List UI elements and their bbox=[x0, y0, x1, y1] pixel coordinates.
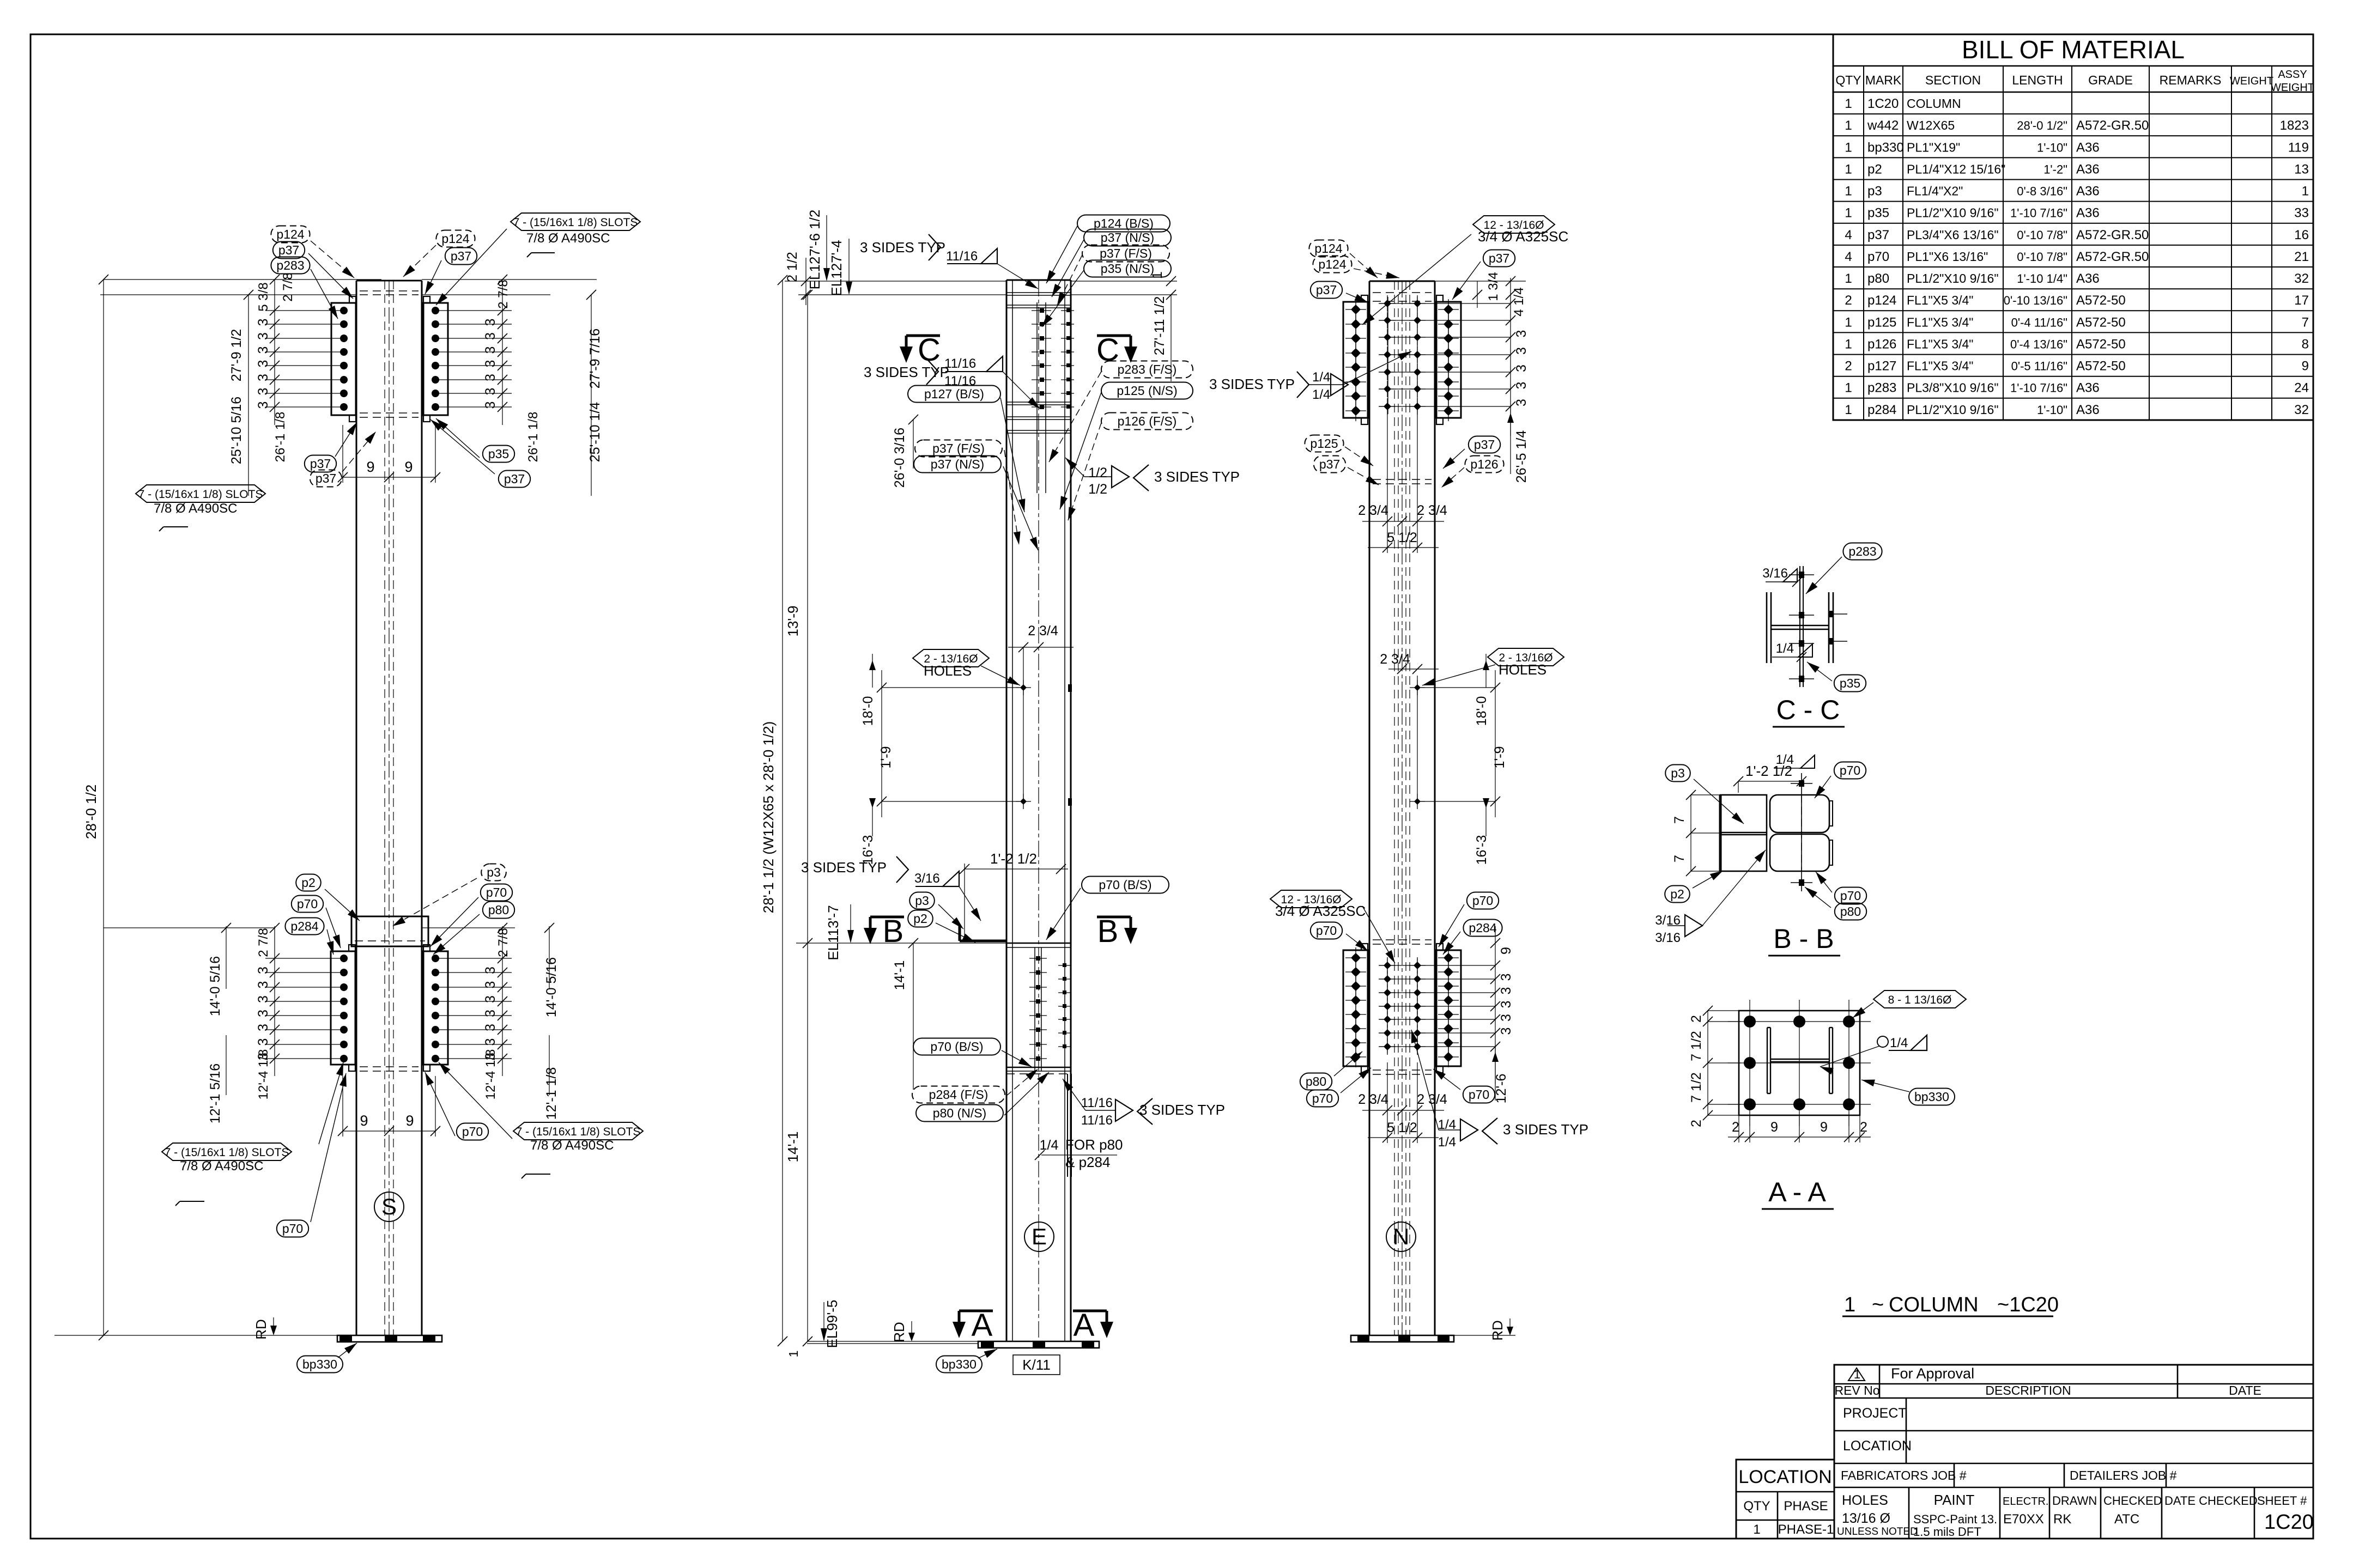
svg-text:3/16: 3/16 bbox=[1655, 931, 1681, 945]
svg-text:11/16: 11/16 bbox=[1081, 1113, 1113, 1128]
svg-text:3: 3 bbox=[1514, 330, 1529, 338]
svg-text:3/4 Ø A325SC: 3/4 Ø A325SC bbox=[1275, 903, 1366, 919]
svg-text:3: 3 bbox=[1499, 974, 1514, 981]
svg-text:A36: A36 bbox=[2076, 271, 2100, 286]
svg-text:QTY: QTY bbox=[1835, 73, 1861, 87]
svg-text:p283: p283 bbox=[1867, 381, 1896, 396]
svg-text:p37: p37 bbox=[1319, 457, 1340, 471]
svg-text:4: 4 bbox=[1845, 228, 1852, 242]
svg-text:p80: p80 bbox=[488, 903, 509, 917]
E section C markers bbox=[906, 335, 940, 337]
svg-text:9: 9 bbox=[1820, 1120, 1828, 1135]
S overall dim 28ft bbox=[103, 279, 104, 1335]
svg-text:12'-6: 12'-6 bbox=[1494, 1074, 1509, 1104]
svg-text:1: 1 bbox=[1845, 118, 1852, 133]
svg-text:p37: p37 bbox=[278, 243, 299, 257]
svg-text:For Approval: For Approval bbox=[1891, 1365, 1974, 1382]
svg-text:0'-4 13/16": 0'-4 13/16" bbox=[2010, 337, 2067, 351]
svg-text:p80: p80 bbox=[1840, 904, 1861, 919]
svg-text:A36: A36 bbox=[2076, 162, 2100, 177]
svg-text:p126: p126 bbox=[1867, 337, 1896, 351]
E top labels bbox=[1077, 215, 1170, 232]
svg-text:2 1/2: 2 1/2 bbox=[785, 252, 800, 282]
svg-text:7/8 Ø A490SC: 7/8 Ø A490SC bbox=[154, 501, 237, 516]
svg-text:p2: p2 bbox=[913, 911, 927, 926]
svg-text:1: 1 bbox=[1845, 162, 1852, 177]
E web holes 2-13/16 bbox=[1023, 647, 1024, 801]
svg-text:1'-10": 1'-10" bbox=[2037, 141, 2067, 154]
svg-text:SSPC-Paint 13.: SSPC-Paint 13. bbox=[1913, 1512, 1997, 1526]
svg-text:12'-1 5/16: 12'-1 5/16 bbox=[208, 1063, 223, 1123]
svg-text:p37: p37 bbox=[1867, 228, 1889, 242]
svg-text:1/4: 1/4 bbox=[1312, 370, 1330, 385]
svg-text:p125 (N/S): p125 (N/S) bbox=[1117, 384, 1177, 398]
svg-text:p126: p126 bbox=[1470, 457, 1498, 471]
svg-text:1: 1 bbox=[2302, 184, 2309, 199]
svg-text:5 1/2: 5 1/2 bbox=[1387, 1120, 1417, 1135]
svg-text:p70: p70 bbox=[1312, 1091, 1333, 1105]
svg-text:A36: A36 bbox=[2076, 381, 2100, 396]
svg-text:1.5 mils DFT: 1.5 mils DFT bbox=[1913, 1525, 1981, 1539]
E bottom splice plates bbox=[1006, 943, 1071, 944]
svg-text:2 3/4: 2 3/4 bbox=[1380, 652, 1410, 667]
svg-text:2 3/4: 2 3/4 bbox=[1417, 503, 1447, 518]
svg-text:8: 8 bbox=[2302, 337, 2309, 351]
K/11 label bbox=[1013, 1355, 1060, 1375]
svg-text:1/2: 1/2 bbox=[1088, 482, 1107, 497]
svg-text:CHECKED: CHECKED bbox=[2103, 1494, 2162, 1508]
svg-text:3: 3 bbox=[256, 1010, 271, 1017]
svg-text:SHEET #: SHEET # bbox=[2257, 1494, 2307, 1508]
svg-text:13: 13 bbox=[2294, 162, 2309, 177]
svg-text:p283 (F/S): p283 (F/S) bbox=[1118, 362, 1177, 376]
svg-text:bp330: bp330 bbox=[1867, 140, 1904, 155]
A-A weld all around bbox=[1877, 1036, 1888, 1047]
svg-text:p80: p80 bbox=[1867, 271, 1889, 286]
E base plate bbox=[807, 1341, 978, 1342]
svg-text:HOLES: HOLES bbox=[1499, 661, 1547, 678]
svg-text:3: 3 bbox=[483, 402, 498, 409]
svg-text:9: 9 bbox=[2302, 359, 2309, 374]
N top right dims bbox=[1510, 278, 1511, 436]
svg-text:C: C bbox=[1096, 332, 1119, 368]
svg-text:REMARKS: REMARKS bbox=[2160, 73, 2222, 87]
svg-text:16'-3: 16'-3 bbox=[1474, 835, 1489, 865]
svg-text:p37: p37 bbox=[316, 471, 336, 485]
svg-text:1'-10 1/4": 1'-10 1/4" bbox=[2017, 272, 2067, 285]
svg-text:PL1"X19": PL1"X19" bbox=[1907, 140, 1960, 154]
svg-text:PL1/4"X12 15/16": PL1/4"X12 15/16" bbox=[1907, 162, 2005, 176]
svg-text:B: B bbox=[883, 914, 904, 949]
svg-text:A36: A36 bbox=[2076, 140, 2100, 155]
S top labels bbox=[271, 226, 310, 243]
svg-text:26'-5 1/4: 26'-5 1/4 bbox=[1514, 430, 1529, 483]
N top splice plates bbox=[1343, 302, 1368, 418]
svg-text:REV No: REV No bbox=[1834, 1383, 1879, 1397]
svg-text:LOCATION: LOCATION bbox=[1738, 1467, 1832, 1487]
svg-text:p2: p2 bbox=[301, 876, 316, 890]
svg-text:3: 3 bbox=[256, 374, 271, 381]
svg-text:3: 3 bbox=[483, 981, 498, 989]
svg-text:p37 (F/S): p37 (F/S) bbox=[1100, 246, 1152, 260]
svg-text:3: 3 bbox=[256, 981, 271, 989]
svg-text:7 1/2: 7 1/2 bbox=[1689, 1031, 1704, 1061]
svg-text:3: 3 bbox=[256, 995, 271, 1003]
svg-text:4: 4 bbox=[1845, 250, 1852, 264]
svg-text:18'-0: 18'-0 bbox=[1474, 696, 1489, 726]
svg-text:PL1/2"X10 9/16": PL1/2"X10 9/16" bbox=[1907, 271, 1999, 285]
svg-text:1/4: 1/4 bbox=[1438, 1135, 1456, 1150]
svg-text:12'-4 1/8: 12'-4 1/8 bbox=[483, 1049, 498, 1100]
svg-text:p70: p70 bbox=[1840, 889, 1861, 903]
svg-text:26'-0 3/16: 26'-0 3/16 bbox=[892, 428, 907, 488]
svg-text:3: 3 bbox=[256, 332, 271, 340]
svg-text:p70: p70 bbox=[1316, 923, 1337, 938]
svg-text:p126 (F/S): p126 (F/S) bbox=[1118, 414, 1177, 428]
svg-text:11/16: 11/16 bbox=[944, 356, 976, 371]
N web holes bbox=[1417, 676, 1418, 801]
svg-text:17: 17 bbox=[2294, 293, 2309, 308]
E p80/p284 plate edge below splice bbox=[1067, 1074, 1068, 1177]
svg-text:3 SIDES TYP: 3 SIDES TYP bbox=[864, 364, 949, 380]
svg-text:p124: p124 bbox=[1318, 257, 1346, 271]
svg-text:3: 3 bbox=[256, 360, 271, 368]
svg-text:p124: p124 bbox=[276, 227, 304, 241]
svg-text:7/8 Ø A490SC: 7/8 Ø A490SC bbox=[530, 1138, 614, 1153]
svg-text:WEIGHT: WEIGHT bbox=[2230, 75, 2273, 87]
S bottom splice p2 block bbox=[351, 916, 428, 946]
svg-text:p284: p284 bbox=[1469, 921, 1496, 935]
svg-text:FOR p80: FOR p80 bbox=[1065, 1137, 1123, 1153]
svg-text:27'-11 1/2: 27'-11 1/2 bbox=[1152, 296, 1167, 356]
svg-text:LOCATION: LOCATION bbox=[1843, 1438, 1912, 1454]
E section B markers bbox=[870, 916, 904, 919]
svg-text:1/4: 1/4 bbox=[1312, 387, 1330, 402]
N top labels bbox=[1309, 240, 1348, 257]
section B-B bbox=[1719, 795, 1722, 871]
svg-text:p70: p70 bbox=[297, 897, 318, 911]
svg-text:p70: p70 bbox=[1867, 250, 1889, 264]
svg-text:9: 9 bbox=[1770, 1120, 1778, 1135]
svg-text:3: 3 bbox=[256, 347, 271, 354]
svg-text:~1C20: ~1C20 bbox=[1997, 1293, 2059, 1316]
svg-text:7 1/2: 7 1/2 bbox=[1689, 1072, 1704, 1103]
svg-text:PL3/4"X6 13/16": PL3/4"X6 13/16" bbox=[1907, 228, 1999, 242]
svg-text:p284 (F/S): p284 (F/S) bbox=[929, 1087, 988, 1102]
svg-text:EL113'-7: EL113'-7 bbox=[825, 905, 841, 960]
E elevation datum labels bbox=[785, 281, 1006, 282]
N view column elevation bbox=[1369, 281, 1370, 1335]
svg-text:B - B: B - B bbox=[1773, 923, 1834, 954]
svg-text:11/16: 11/16 bbox=[944, 374, 976, 388]
svg-text:p127 (B/S): p127 (B/S) bbox=[924, 387, 984, 401]
svg-text:3 SIDES TYP: 3 SIDES TYP bbox=[1503, 1121, 1588, 1138]
svg-text:DATE CHECKED: DATE CHECKED bbox=[2164, 1494, 2258, 1508]
svg-text:MARK: MARK bbox=[1865, 73, 1902, 87]
svg-text:3: 3 bbox=[483, 374, 498, 381]
svg-text:RD: RD bbox=[253, 1319, 269, 1340]
svg-text:25'-10 1/4: 25'-10 1/4 bbox=[587, 402, 603, 463]
svg-text:3: 3 bbox=[256, 1038, 271, 1046]
C-C web plate p283/p35 bbox=[1799, 566, 1800, 687]
section A-A base plate bbox=[1739, 1011, 1860, 1115]
E section A markers bbox=[959, 1310, 993, 1312]
svg-text:UNLESS NOTED: UNLESS NOTED bbox=[1837, 1526, 1918, 1537]
title block bbox=[1834, 1365, 2313, 1539]
svg-text:18'-0: 18'-0 bbox=[860, 696, 876, 726]
svg-text:0'-8 3/16": 0'-8 3/16" bbox=[2017, 185, 2067, 198]
svg-text:A: A bbox=[1074, 1308, 1095, 1343]
svg-text:COLUMN: COLUMN bbox=[1889, 1293, 1979, 1316]
svg-text:p70: p70 bbox=[486, 885, 507, 900]
svg-text:p37: p37 bbox=[1489, 251, 1509, 265]
svg-text:K/11: K/11 bbox=[1022, 1357, 1051, 1373]
svg-text:FABRICATORS JOB #: FABRICATORS JOB # bbox=[1841, 1468, 1967, 1482]
svg-text:32: 32 bbox=[2294, 271, 2309, 286]
svg-text:11/16: 11/16 bbox=[1081, 1096, 1113, 1110]
svg-text:26'-1 1/8: 26'-1 1/8 bbox=[273, 412, 288, 463]
svg-text:p37 (N/S): p37 (N/S) bbox=[1101, 230, 1154, 245]
svg-text:3: 3 bbox=[483, 388, 498, 396]
svg-text:3: 3 bbox=[483, 347, 498, 354]
svg-text:3: 3 bbox=[483, 360, 498, 368]
svg-text:p35: p35 bbox=[1867, 206, 1889, 221]
svg-text:1823: 1823 bbox=[2280, 118, 2309, 133]
svg-text:p124 (B/S): p124 (B/S) bbox=[1094, 216, 1154, 230]
S bottom labels bbox=[296, 874, 321, 891]
svg-text:1C20: 1C20 bbox=[1867, 96, 1899, 111]
svg-text:COLUMN: COLUMN bbox=[1907, 96, 1961, 111]
E view circle bbox=[1024, 1222, 1054, 1251]
svg-text:7/8 Ø A490SC: 7/8 Ø A490SC bbox=[526, 231, 610, 246]
svg-text:A572-50: A572-50 bbox=[2076, 315, 2126, 330]
svg-text:1: 1 bbox=[1854, 1368, 1860, 1381]
svg-text:p37: p37 bbox=[1316, 283, 1337, 297]
svg-text:E: E bbox=[1032, 1224, 1047, 1249]
location/phase table bbox=[1736, 1460, 1834, 1539]
svg-text:A: A bbox=[972, 1308, 993, 1343]
svg-text:3: 3 bbox=[256, 319, 271, 326]
svg-text:DATE: DATE bbox=[2229, 1383, 2261, 1397]
svg-text:ATC: ATC bbox=[2114, 1512, 2139, 1527]
svg-text:DRAWN: DRAWN bbox=[2052, 1494, 2097, 1508]
svg-text:S: S bbox=[381, 1194, 397, 1219]
svg-text:1: 1 bbox=[1845, 206, 1852, 221]
svg-text:PL1/2"X10 9/16": PL1/2"X10 9/16" bbox=[1907, 206, 1999, 220]
svg-text:0'-4 11/16": 0'-4 11/16" bbox=[2011, 315, 2067, 329]
E top web splice plate edges bbox=[1036, 302, 1038, 493]
svg-text:0'-10 13/16": 0'-10 13/16" bbox=[2004, 294, 2067, 307]
svg-text:3: 3 bbox=[256, 1024, 271, 1031]
svg-text:p283: p283 bbox=[276, 258, 304, 272]
svg-text:FL1"X5 3/4": FL1"X5 3/4" bbox=[1907, 293, 1973, 307]
svg-text:C - C: C - C bbox=[1776, 695, 1840, 725]
svg-text:1C20: 1C20 bbox=[2264, 1511, 2314, 1534]
svg-text:7 - (15/16x1 1/8) SLOTS: 7 - (15/16x1 1/8) SLOTS bbox=[516, 1126, 641, 1138]
svg-text:A36: A36 bbox=[2076, 206, 2100, 221]
S top splice plates p124/p37 bbox=[331, 303, 356, 415]
svg-text:1: 1 bbox=[1845, 271, 1852, 286]
svg-text:p37 (N/S): p37 (N/S) bbox=[931, 457, 984, 471]
svg-text:1: 1 bbox=[1845, 403, 1852, 417]
svg-text:7: 7 bbox=[1672, 816, 1687, 824]
svg-text:2 3/4: 2 3/4 bbox=[1358, 503, 1388, 518]
svg-text:13/16 Ø: 13/16 Ø bbox=[1842, 1511, 1890, 1526]
svg-text:& p284: & p284 bbox=[1065, 1154, 1110, 1170]
svg-text:p70 (B/S): p70 (B/S) bbox=[930, 1040, 983, 1054]
svg-text:p3: p3 bbox=[1867, 184, 1882, 199]
svg-text:7: 7 bbox=[1672, 855, 1687, 862]
svg-text:21: 21 bbox=[2294, 250, 2309, 264]
svg-text:3: 3 bbox=[256, 967, 271, 974]
svg-text:FL1"X5 3/4": FL1"X5 3/4" bbox=[1907, 359, 1973, 373]
svg-text:RK: RK bbox=[2053, 1512, 2071, 1527]
svg-text:3/4 Ø A325SC: 3/4 Ø A325SC bbox=[1478, 228, 1568, 245]
E dim chains bbox=[782, 280, 783, 1341]
svg-text:2: 2 bbox=[1845, 293, 1852, 308]
svg-text:3 SIDES TYP: 3 SIDES TYP bbox=[801, 859, 887, 876]
svg-text:FL1/4"X2": FL1/4"X2" bbox=[1907, 184, 1963, 198]
svg-text:1: 1 bbox=[786, 1351, 800, 1358]
svg-text:p37 (F/S): p37 (F/S) bbox=[932, 441, 985, 455]
svg-text:WEIGHT: WEIGHT bbox=[2271, 82, 2314, 94]
svg-text:p35 (N/S): p35 (N/S) bbox=[1101, 262, 1154, 276]
A-A anchor bolts bbox=[1744, 1016, 1756, 1028]
svg-text:p80 (N/S): p80 (N/S) bbox=[933, 1106, 986, 1120]
section C-C bbox=[1766, 592, 1768, 663]
svg-text:8 - 1 13/16Ø: 8 - 1 13/16Ø bbox=[1888, 994, 1952, 1006]
svg-text:1'-2": 1'-2" bbox=[2043, 162, 2067, 176]
Bill of Material table bbox=[1833, 34, 2313, 420]
svg-text:p124: p124 bbox=[441, 232, 469, 246]
A-A column section bbox=[1767, 1028, 1768, 1093]
svg-text:9: 9 bbox=[366, 459, 374, 475]
svg-text:p283: p283 bbox=[1848, 544, 1876, 558]
svg-text:RD: RD bbox=[1489, 1320, 1506, 1341]
svg-text:25'-10 5/16: 25'-10 5/16 bbox=[229, 397, 244, 464]
svg-text:5 1/2: 5 1/2 bbox=[1387, 530, 1417, 545]
svg-text:1'-2 1/2: 1'-2 1/2 bbox=[1745, 763, 1792, 779]
svg-text:14'-0 5/16: 14'-0 5/16 bbox=[208, 956, 223, 1016]
svg-text:5 3/8: 5 3/8 bbox=[256, 282, 271, 311]
svg-text:p80: p80 bbox=[1306, 1074, 1326, 1089]
svg-text:13'-9: 13'-9 bbox=[785, 605, 801, 636]
svg-text:bp330: bp330 bbox=[302, 1357, 337, 1371]
svg-text:p70 (B/S): p70 (B/S) bbox=[1099, 878, 1151, 892]
svg-text:27'-9 7/16: 27'-9 7/16 bbox=[587, 329, 603, 388]
svg-text:32: 32 bbox=[2294, 403, 2309, 417]
svg-text:1 3/4: 1 3/4 bbox=[1486, 272, 1501, 301]
svg-text:PHASE-1: PHASE-1 bbox=[1778, 1522, 1834, 1537]
svg-text:p37: p37 bbox=[504, 472, 525, 486]
S view circle bbox=[374, 1192, 404, 1221]
svg-text:p284: p284 bbox=[1867, 403, 1896, 417]
svg-text:119: 119 bbox=[2288, 140, 2309, 155]
svg-text:A572-GR.50: A572-GR.50 bbox=[2076, 228, 2149, 242]
svg-text:7 - (15/16x1 1/8) SLOTS: 7 - (15/16x1 1/8) SLOTS bbox=[165, 1146, 289, 1159]
svg-text:RD: RD bbox=[891, 1322, 907, 1342]
svg-text:3: 3 bbox=[483, 1010, 498, 1017]
svg-text:7/8 Ø A490SC: 7/8 Ø A490SC bbox=[180, 1159, 263, 1174]
svg-text:16: 16 bbox=[2294, 228, 2309, 242]
svg-text:2: 2 bbox=[1689, 1015, 1704, 1023]
svg-text:p125: p125 bbox=[1310, 436, 1338, 451]
svg-text:3: 3 bbox=[1499, 1028, 1514, 1035]
svg-text:PL3/8"X10 9/16": PL3/8"X10 9/16" bbox=[1907, 381, 1999, 395]
svg-text:HOLES: HOLES bbox=[924, 663, 972, 679]
svg-text:bp330: bp330 bbox=[1914, 1090, 1949, 1104]
svg-text:3/16: 3/16 bbox=[1762, 566, 1788, 581]
svg-text:9: 9 bbox=[360, 1113, 368, 1129]
svg-text:2 3/4: 2 3/4 bbox=[1028, 623, 1058, 639]
svg-text:A36: A36 bbox=[2076, 403, 2100, 417]
svg-text:p70: p70 bbox=[282, 1221, 303, 1236]
svg-text:GRADE: GRADE bbox=[2088, 73, 2133, 87]
svg-text:3 SIDES TYP: 3 SIDES TYP bbox=[1209, 376, 1295, 392]
svg-text:1: 1 bbox=[1753, 1522, 1760, 1537]
svg-text:1: 1 bbox=[1845, 315, 1852, 330]
svg-text:1: 1 bbox=[1845, 96, 1852, 111]
svg-text:1'-9: 1'-9 bbox=[1492, 746, 1507, 769]
svg-text:QTY: QTY bbox=[1743, 1499, 1770, 1514]
svg-text:A572-50: A572-50 bbox=[2076, 337, 2126, 351]
S view column elevation bbox=[356, 281, 357, 1335]
svg-text:3: 3 bbox=[1499, 1014, 1514, 1022]
svg-text:3: 3 bbox=[1514, 382, 1529, 390]
svg-text:FL1"X5 3/4": FL1"X5 3/4" bbox=[1907, 337, 1973, 351]
svg-text:1/4: 1/4 bbox=[1040, 1138, 1059, 1153]
svg-text:2 7/8: 2 7/8 bbox=[496, 928, 511, 957]
svg-text:W12X65: W12X65 bbox=[1907, 118, 1955, 132]
svg-text:p35: p35 bbox=[1840, 676, 1860, 690]
svg-text:1: 1 bbox=[1844, 1293, 1855, 1316]
svg-text:2: 2 bbox=[1845, 359, 1852, 374]
svg-text:3: 3 bbox=[1514, 364, 1529, 372]
N bottom splice plates bbox=[1343, 950, 1368, 1066]
svg-text:27'-9 1/2: 27'-9 1/2 bbox=[229, 329, 244, 382]
svg-text:3: 3 bbox=[1514, 399, 1529, 406]
svg-text:3: 3 bbox=[483, 1024, 498, 1031]
svg-text:1'-10 7/16": 1'-10 7/16" bbox=[2010, 206, 2067, 220]
svg-text:1/4: 1/4 bbox=[1890, 1036, 1908, 1050]
svg-text:p70: p70 bbox=[462, 1125, 483, 1139]
svg-text:3/16: 3/16 bbox=[914, 871, 940, 886]
svg-text:p3: p3 bbox=[915, 894, 929, 908]
N bottom right dims bbox=[1495, 926, 1496, 1084]
svg-text:1'-9: 1'-9 bbox=[878, 746, 894, 769]
N base plate bbox=[1351, 1335, 1454, 1342]
svg-text:EL127'-4: EL127'-4 bbox=[828, 240, 845, 296]
N view circle bbox=[1386, 1222, 1416, 1251]
svg-text:PAINT: PAINT bbox=[1934, 1492, 1975, 1508]
svg-text:9: 9 bbox=[1499, 947, 1514, 955]
svg-text:26'-1 1/8: 26'-1 1/8 bbox=[526, 412, 541, 463]
svg-text:1: 1 bbox=[1845, 184, 1852, 199]
svg-text:ELECTR.: ELECTR. bbox=[2003, 1496, 2048, 1508]
svg-text:14'-1: 14'-1 bbox=[892, 961, 907, 990]
svg-text:A572-GR.50: A572-GR.50 bbox=[2076, 250, 2149, 264]
svg-text:SECTION: SECTION bbox=[1925, 73, 1981, 87]
svg-text:p124: p124 bbox=[1314, 241, 1342, 256]
svg-text:1'-10": 1'-10" bbox=[2037, 403, 2067, 417]
svg-text:3: 3 bbox=[1514, 347, 1529, 355]
svg-text:PL1"X6 13/16": PL1"X6 13/16" bbox=[1907, 250, 1988, 264]
svg-text:p3: p3 bbox=[487, 865, 501, 879]
svg-text:ASSY: ASSY bbox=[2278, 69, 2307, 81]
svg-text:33: 33 bbox=[2294, 206, 2309, 221]
svg-text:p284: p284 bbox=[290, 919, 318, 933]
svg-text:12'-1 1/8: 12'-1 1/8 bbox=[544, 1067, 559, 1120]
